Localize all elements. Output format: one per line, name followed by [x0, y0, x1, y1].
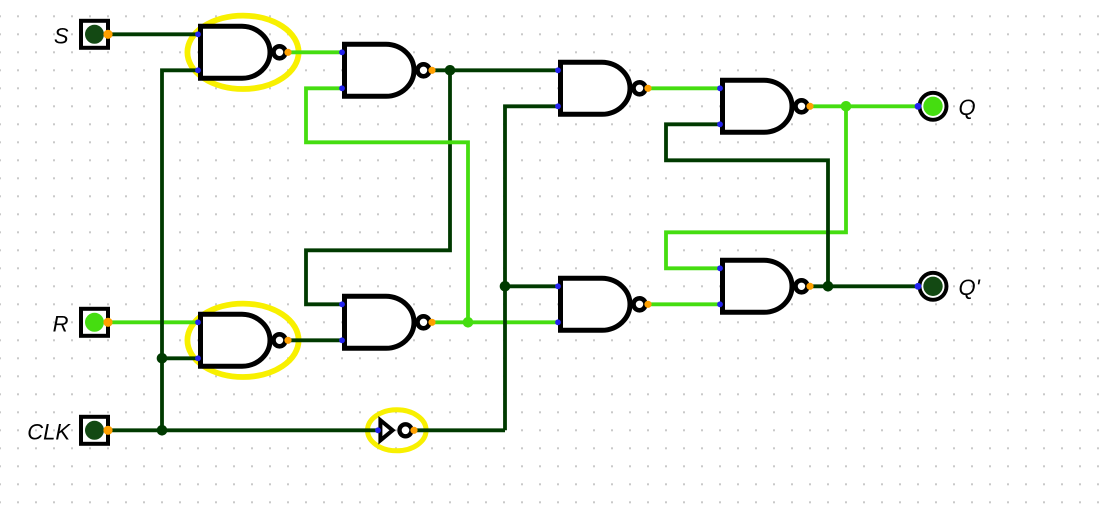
svg-text:S: S	[54, 24, 69, 49]
wire CLK branch to G5 lower input	[162, 356, 198, 360]
highlight oval around NAND gate G1	[187, 16, 298, 89]
wire CLK' vertical trunk to G3 lower input	[505, 106, 558, 430]
G1 output port dot	[284, 49, 291, 56]
G5 input port dots	[195, 319, 201, 325]
G7 output port dot	[644, 301, 651, 308]
wire G3 output to G4 upper input (high)	[648, 86, 720, 90]
wire G2 output feedback to G6 upper input	[306, 70, 450, 304]
junction at G6 output feedback (high)	[463, 317, 474, 328]
highlight oval around inverter U1	[368, 410, 427, 451]
NAND gate G7	[561, 278, 646, 330]
output pin Q'	[920, 273, 947, 300]
NAND gate G4	[723, 80, 808, 132]
wire Q' feedback to G4 lower input	[666, 124, 828, 286]
wire S to G1 upper input	[109, 32, 198, 36]
junction at G4 output feedback (high)	[841, 101, 852, 112]
NAND gate G5	[201, 314, 286, 366]
U1 output port dot	[410, 427, 417, 434]
G6 output port dot	[428, 319, 435, 326]
input pin R	[81, 309, 108, 336]
Q pin port dot	[915, 103, 922, 110]
junction on CLK trunk at G5 branch	[157, 353, 168, 364]
input pin S	[81, 21, 108, 48]
G8 input port dots	[717, 265, 723, 271]
junction at G2 output feedback	[445, 65, 456, 76]
G2 input port dots	[339, 49, 345, 55]
wire G1 output to G2 upper input (high)	[288, 50, 342, 54]
wire CLK vertical trunk to G1 lower input	[162, 70, 198, 430]
NAND gate G1	[201, 26, 286, 78]
G2 output port dot	[428, 67, 435, 74]
wire G6 output feedback to G2 lower input (high)	[306, 88, 468, 322]
input pin CLK	[81, 417, 108, 444]
wire R to G5 upper input (high)	[109, 320, 198, 324]
wire Q feedback to G8 upper input (high)	[666, 106, 846, 268]
highlight oval around NAND gate G5	[187, 304, 298, 377]
junction on CLK' trunk at G7 branch	[500, 281, 511, 292]
wire G7 output to G8 lower input (high)	[648, 302, 720, 306]
wire CLK horizontal to inverter input	[109, 428, 378, 432]
NAND gate G2	[345, 44, 430, 96]
G7 input port dots	[555, 283, 561, 289]
G3 output port dot	[644, 85, 651, 92]
wire CLK' branch to G7 upper input	[505, 284, 558, 288]
wire G6 output to G7 lower input (high)	[432, 320, 558, 324]
svg-text:CLK: CLK	[27, 420, 71, 445]
G4 output port dot	[806, 103, 813, 110]
svg-text:Q': Q'	[959, 275, 981, 300]
NAND gate G3	[561, 62, 646, 114]
wire G4 output to pin Q (high)	[810, 104, 918, 108]
U1 input port dot	[375, 427, 381, 433]
wire G2 output to G3 upper input	[432, 68, 558, 72]
wire G5 output to G6 lower input	[288, 338, 342, 342]
G5 output port dot	[284, 337, 291, 344]
svg-text:R: R	[53, 312, 69, 337]
NAND gate G6	[345, 296, 430, 348]
output pin Q	[920, 93, 947, 120]
G1 input port dots	[195, 31, 201, 37]
G8 output port dot	[806, 283, 813, 290]
wire G8 output to pin Q'	[810, 284, 918, 288]
CLK pin port dot	[103, 426, 112, 435]
Q' pin port dot	[915, 283, 922, 290]
wire inverter output to CLK' vertical trunk	[414, 428, 505, 432]
G4 input port dots	[717, 85, 723, 91]
G3 input port dots	[555, 67, 561, 73]
inverter U1 (CLK)	[380, 420, 411, 440]
junction at G8 output feedback	[823, 281, 834, 292]
S pin port dot	[103, 30, 112, 39]
svg-text:Q: Q	[959, 95, 976, 120]
R pin port dot	[103, 318, 112, 327]
NAND gate G8	[723, 260, 808, 312]
G6 input port dots	[339, 301, 345, 307]
junction on CLK trunk at CLK wire	[157, 425, 168, 436]
